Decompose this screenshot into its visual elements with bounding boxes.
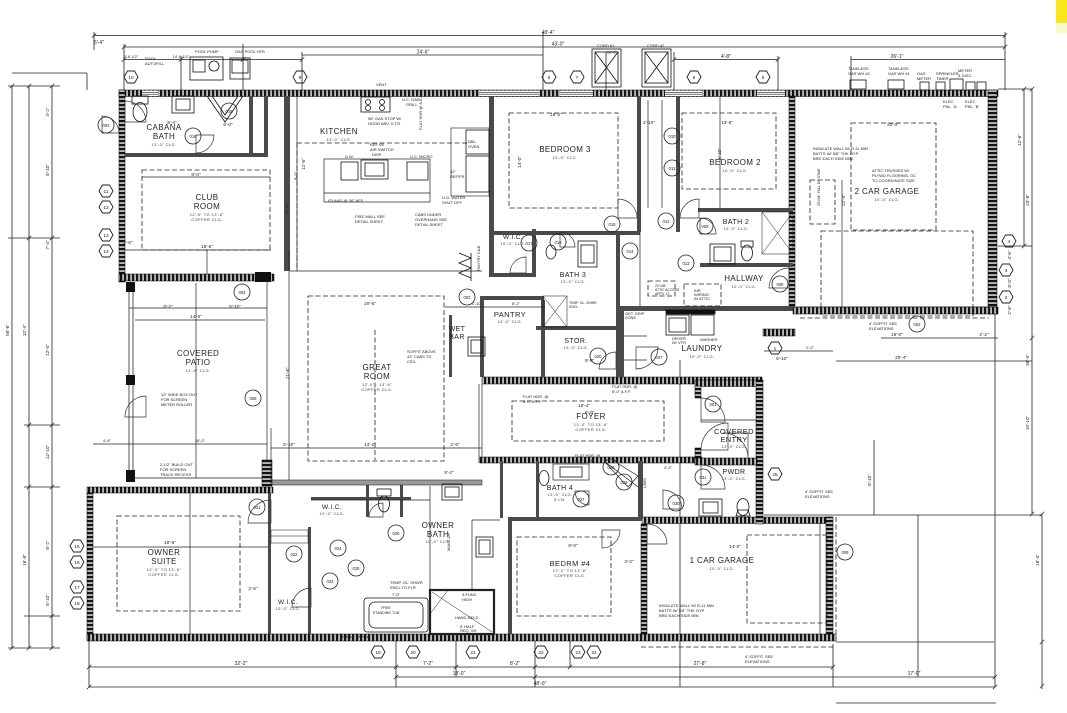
svg-text:STANDING TUB: STANDING TUB: [373, 611, 400, 615]
bath2 tub: [762, 212, 793, 254]
patio lower dim line: [93, 443, 267, 445]
svg-text:COND #1: COND #1: [597, 43, 615, 48]
svg-text:32'-2": 32'-2": [235, 661, 248, 667]
kitchen counter west edge: [296, 96, 298, 271]
patio columns: [126, 282, 135, 292]
svg-text:8'-2": 8'-2": [45, 540, 50, 550]
svg-text:028: 028: [608, 465, 616, 470]
svg-text:D.W.: D.W.: [345, 154, 354, 159]
svg-text:8: 8: [693, 75, 696, 81]
svg-text:10'-0" CLG.: 10'-0" CLG.: [552, 155, 577, 160]
svg-text:COFFER CLG.: COFFER CLG.: [575, 427, 606, 432]
svg-text:14'-0": 14'-0": [190, 314, 202, 319]
svg-text:REQ. SH: REQ. SH: [460, 628, 477, 633]
door covered entry side: [701, 398, 725, 422]
owner tub: [364, 598, 428, 632]
owner suite dim line: [93, 546, 268, 548]
dashed kitchen counter line: [297, 142, 470, 144]
svg-text:18'-0": 18'-0": [453, 671, 466, 677]
svg-text:011: 011: [669, 166, 676, 171]
svg-text:11: 11: [104, 189, 109, 195]
kitchen island outline: [324, 159, 430, 202]
svg-text:PWDR: PWDR: [723, 469, 746, 476]
dashed soffit line below garage wall: [800, 317, 989, 319]
door stor: [599, 352, 616, 369]
dimension texts bottom: [235, 661, 921, 687]
svg-text:W.I.C.: W.I.C.: [278, 599, 298, 606]
door swing arcs: [102, 101, 789, 607]
svg-text:ELEVATIONS: ELEVATIONS: [869, 326, 894, 331]
bath2 vanity: [710, 244, 735, 264]
svg-text:BRD EACH SIDE MIN.: BRD EACH SIDE MIN.: [659, 613, 700, 618]
svg-text:PANTRY: PANTRY: [494, 310, 526, 319]
svg-text:COVERED: COVERED: [177, 349, 219, 358]
right side connectors: [764, 514, 1042, 516]
svg-text:14'-0": 14'-0": [517, 156, 522, 168]
svg-text:ISLAND @ 36" AFF.: ISLAND @ 36" AFF.: [328, 198, 364, 203]
linen diagonal closet: [604, 461, 638, 487]
svg-text:KITCHEN: KITCHEN: [320, 127, 358, 136]
svg-text:12'-10": 12'-10": [45, 445, 50, 460]
svg-text:001: 001: [710, 402, 718, 407]
door entry second leaf: [701, 423, 728, 450]
door wic: [510, 257, 526, 273]
svg-text:10'-0" CLG.: 10'-0" CLG.: [319, 511, 344, 516]
svg-text:8'-10": 8'-10": [45, 594, 50, 606]
svg-text:8'-0": 8'-0": [568, 543, 578, 548]
svg-text:12'-6": 12'-6": [1017, 134, 1022, 146]
svg-text:TRACK RECESS: TRACK RECESS: [160, 472, 191, 477]
svg-text:COND #2: COND #2: [647, 43, 665, 48]
svg-text:24'-6": 24'-6": [417, 50, 430, 56]
covered entry north wall: [695, 380, 757, 387]
pantry dim line: [445, 306, 545, 308]
svg-text:BEDROOM 3: BEDROOM 3: [539, 145, 591, 154]
svg-text:2'-6": 2'-6": [248, 586, 258, 591]
wall: laundry west / stor east: [620, 311, 624, 377]
powder east wall: [756, 465, 763, 524]
door powder: [663, 490, 682, 509]
svg-text:20'-0": 20'-0": [887, 122, 899, 127]
foyer west opening line: [478, 384, 480, 463]
door powder north: [701, 465, 725, 489]
top dimension line third: [124, 59, 302, 61]
wall: bedroom3 south: [494, 231, 640, 235]
svg-text:25"x54" PULL DN STAIR: 25"x54" PULL DN STAIR: [817, 168, 821, 206]
wall: bedroom2 south / bath2 north: [698, 208, 793, 212]
svg-text:COFFER CLG.: COFFER CLG.: [148, 572, 179, 577]
wall: bath2 south / hallway north: [700, 263, 793, 267]
svg-text:8'-10": 8'-10": [776, 356, 788, 361]
svg-text:10'-0" CLG.: 10'-0" CLG.: [722, 168, 747, 173]
wall: bath3 east: [616, 232, 620, 377]
dashed ceiling rect: bedroom 2: [682, 113, 776, 189]
svg-text:DETAIL SHEET: DETAIL SHEET: [355, 219, 384, 224]
door bedroom2: [680, 199, 699, 218]
svg-text:BATH 4: BATH 4: [547, 485, 573, 492]
wall: foyer north / laundry south: [482, 377, 762, 384]
laundry interior lines: [624, 335, 647, 337]
interior thick walls: [125, 96, 793, 634]
dashed door: 1 car garage: [747, 535, 827, 623]
kitchen cooktop: [361, 97, 390, 112]
svg-text:18: 18: [74, 601, 80, 607]
svg-text:18'-0": 18'-0": [195, 438, 206, 443]
svg-text:BEDRM #4: BEDRM #4: [550, 559, 591, 568]
owner wic shelves: [271, 530, 308, 543]
svg-text:36'-0": 36'-0": [1025, 354, 1030, 366]
exterior wall: left upper (club room wing): [119, 90, 125, 282]
wall: owner toilet room: [366, 484, 369, 517]
svg-text:CEIL.: CEIL.: [407, 359, 417, 364]
svg-text:LINEAR DRAIN: LINEAR DRAIN: [340, 634, 368, 639]
exterior wall: 1 car garage west: [641, 524, 647, 634]
svg-text:17'-0": 17'-0": [908, 671, 921, 677]
svg-text:16: 16: [74, 560, 80, 566]
washer: [666, 315, 689, 335]
svg-text:22: 22: [538, 650, 544, 656]
island micro: [407, 162, 428, 180]
svg-text:2'-6 1/2": 2'-6 1/2": [124, 54, 139, 59]
left dimension vertical lines: [11, 86, 13, 648]
svg-text:8'-10": 8'-10": [867, 474, 872, 486]
svg-text:029: 029: [621, 480, 629, 485]
svg-text:SUITE: SUITE: [151, 557, 177, 566]
refrigerator: [466, 156, 489, 192]
bath4 toilet: [539, 471, 549, 486]
top extension lines: [93, 32, 95, 50]
svg-text:PANTRY CAB: PANTRY CAB: [476, 246, 481, 271]
svg-text:OWNER: OWNER: [148, 548, 181, 557]
svg-text:15: 15: [74, 544, 80, 550]
svg-text:2'-10": 2'-10": [643, 120, 655, 125]
owner makeup sink: [476, 537, 493, 557]
top-left connector: [12, 72, 87, 74]
hexagon keynote markers: [70, 71, 1016, 658]
svg-text:POOL PUMP: POOL PUMP: [195, 49, 219, 54]
hallway dim extension: [639, 232, 641, 306]
svg-text:PNL. 'A': PNL. 'A': [943, 104, 957, 109]
svg-text:48'-0": 48'-0": [534, 681, 547, 687]
svg-text:8'-0": 8'-0": [191, 172, 201, 177]
covered entry south wall segments: [695, 458, 757, 465]
svg-text:13'-6": 13'-6": [721, 120, 733, 125]
svg-text:10: 10: [128, 75, 134, 81]
svg-text:9: 9: [299, 75, 302, 81]
wall: wic east: [532, 229, 536, 277]
svg-text:12: 12: [103, 205, 109, 211]
svg-text:ELEVATIONS: ELEVATIONS: [805, 494, 830, 499]
svg-text:10'-0" CLG.: 10'-0" CLG.: [275, 606, 300, 611]
svg-text:008: 008: [777, 282, 785, 287]
door bedroom4: [602, 530, 620, 548]
svg-text:2: 2: [1005, 295, 1008, 301]
svg-text:14'-2": 14'-2": [364, 442, 376, 447]
dashed ceiling rect: bedroom 4: [517, 537, 611, 616]
exterior wall: 1 car garage north: [642, 517, 832, 524]
svg-text:18'-6": 18'-6": [201, 244, 213, 249]
svg-text:HOOD ABV. V.T.R.: HOOD ABV. V.T.R.: [368, 121, 401, 126]
door cabana: [196, 135, 214, 153]
svg-text:019: 019: [190, 134, 198, 139]
exterior wall: right (2 car garage east): [988, 90, 997, 314]
svg-text:25: 25: [772, 472, 778, 478]
svg-text:002: 002: [914, 322, 922, 327]
svg-text:1 CAR GARAGE: 1 CAR GARAGE: [690, 556, 755, 565]
svg-text:8'-0" A.F.F.: 8'-0" A.F.F.: [523, 399, 542, 404]
svg-text:ENTRY: ENTRY: [720, 435, 747, 444]
svg-text:COFFER CLG.: COFFER CLG.: [191, 217, 222, 222]
club room interior dim: [125, 249, 271, 251]
svg-text:CLUB: CLUB: [196, 193, 219, 202]
bath2 toilet: [742, 245, 753, 261]
svg-text:16'-0": 16'-0": [891, 332, 903, 337]
svg-text:7'-2": 7'-2": [423, 661, 433, 667]
keynote circles: [98, 103, 925, 589]
svg-text:19'-10": 19'-10": [1025, 416, 1030, 431]
svg-text:TIMER: TIMER: [936, 76, 949, 81]
svg-text:ROOM: ROOM: [364, 372, 391, 381]
dashed ceiling rect: great room: [308, 296, 444, 461]
svg-text:16'-4": 16'-4": [1035, 554, 1040, 566]
door hall-garage: [647, 524, 667, 544]
wall: pool vestibule east: [264, 96, 268, 157]
wall: kitchen east / bedroom3 west: [489, 96, 494, 277]
svg-text:3: 3: [1005, 268, 1008, 274]
top dimension line 43-0: [124, 46, 1005, 48]
patio screen wall west: [129, 282, 271, 478]
wall: bedroom3 east hall: [637, 96, 641, 232]
svg-text:TO COORDINATE SIZE: TO COORDINATE SIZE: [872, 178, 915, 183]
svg-text:ZONE: ZONE: [625, 315, 636, 320]
svg-text:020: 020: [595, 354, 603, 359]
svg-text:STOR.: STOR.: [564, 338, 587, 345]
svg-text:GREAT: GREAT: [363, 363, 392, 372]
svg-text:HALLWAY: HALLWAY: [724, 274, 764, 283]
wall: bath4 east / linen: [638, 461, 643, 519]
svg-text:14'-0": 14'-0": [729, 544, 741, 549]
svg-text:20'-4": 20'-4": [895, 355, 907, 360]
exterior wall: south main: [87, 634, 836, 641]
svg-text:10'-0" CLG.: 10'-0" CLG.: [709, 566, 734, 571]
svg-text:006: 006: [842, 550, 850, 555]
room labels: [146, 123, 919, 611]
double oven: [466, 130, 489, 154]
svg-text:GAS POOL HTR: GAS POOL HTR: [235, 49, 265, 54]
svg-text:GAS WH #1: GAS WH #1: [888, 71, 911, 76]
svg-text:004: 004: [239, 290, 247, 295]
svg-text:MAKE-UP: MAKE-UP: [446, 532, 451, 551]
svg-text:7'-4": 7'-4": [45, 240, 50, 250]
svg-text:009: 009: [702, 224, 710, 229]
club room dim line: [142, 176, 270, 178]
svg-text:016: 016: [555, 240, 563, 245]
svg-text:19: 19: [375, 650, 381, 656]
owner toilet: [379, 496, 390, 512]
wall: pantry north: [480, 296, 544, 300]
svg-text:& DISC.: & DISC.: [958, 73, 972, 78]
svg-text:4'-8": 4'-8": [721, 54, 731, 60]
condenser unit 1: [592, 49, 621, 87]
svg-text:10'-0" CLG.: 10'-0" CLG.: [723, 226, 748, 231]
dryer: [691, 315, 714, 335]
svg-text:031: 031: [700, 475, 708, 480]
svg-text:16'-4": 16'-4": [578, 403, 590, 408]
dashed ceiling rect: owner suite: [117, 516, 240, 611]
door hallway-garage: [769, 268, 789, 288]
svg-text:REF/FR: REF/FR: [450, 174, 465, 179]
wall: bedroom2 west hall: [676, 96, 680, 232]
svg-text:018: 018: [226, 109, 234, 114]
covered patio east line: [266, 282, 268, 460]
svg-text:4'-6": 4'-6": [103, 438, 112, 443]
dashed soffit rect: 2 car garage apron: [821, 231, 973, 316]
svg-text:8'-2": 8'-2": [510, 661, 520, 667]
svg-text:9'-0": 9'-0": [585, 358, 595, 363]
svg-text:ENCL TO FLR.: ENCL TO FLR.: [390, 585, 417, 590]
condenser unit 2: [642, 49, 671, 87]
gas pool heater unit: [230, 58, 250, 79]
svg-text:8'-4": 8'-4": [167, 120, 177, 125]
laundry counter band: [666, 310, 715, 314]
svg-text:12'-0": 12'-0": [45, 344, 50, 356]
svg-text:21'-6": 21'-6": [285, 367, 290, 379]
svg-text:14'-6 1/2": 14'-6 1/2": [173, 54, 190, 59]
svg-text:7'-0": 7'-0": [392, 592, 401, 597]
owner shower: [430, 590, 494, 634]
svg-text:2'-6": 2'-6": [450, 442, 460, 447]
svg-text:APPX. LT.: APPX. LT.: [655, 292, 670, 296]
svg-text:003: 003: [103, 123, 111, 128]
interior dimension texts: [103, 112, 899, 597]
wet bar sink: [468, 337, 485, 356]
svg-text:9'-10": 9'-10": [229, 304, 241, 309]
svg-text:022: 022: [291, 552, 299, 557]
svg-text:8'-0": 8'-0": [585, 410, 595, 415]
sliding glass door band: great room to patio: [271, 480, 482, 485]
exterior wall: 1 car garage east: [826, 517, 833, 634]
svg-text:GAS WH #2: GAS WH #2: [848, 71, 871, 76]
door owner toilet: [369, 503, 383, 517]
bath4 sink inner: [560, 467, 582, 477]
svg-text:LINEN: LINEN: [643, 477, 647, 488]
dashed ceiling rect: 2 car garage: [851, 123, 936, 230]
patio dim lines: [135, 319, 265, 321]
svg-text:10'-0" CLG.: 10'-0" CLG.: [500, 241, 525, 246]
svg-text:20'-6": 20'-6": [364, 301, 376, 306]
svg-text:2'-2": 2'-2": [979, 332, 989, 337]
wall: foyer south / powder north: [480, 457, 702, 463]
small annotations: [145, 43, 979, 664]
svg-text:8'-2": 8'-2": [512, 301, 521, 306]
svg-text:015: 015: [609, 222, 617, 227]
club room center line: [206, 250, 208, 274]
svg-text:014: 014: [627, 249, 635, 254]
dimension texts left rotated: [5, 107, 50, 606]
pool pump unit: [190, 57, 223, 80]
svg-text:21: 21: [470, 650, 476, 656]
cabana toilet: [133, 103, 147, 122]
wall: kitchen west / great room: [284, 96, 290, 271]
svg-text:005: 005: [250, 396, 258, 401]
door laundry: [636, 347, 658, 369]
svg-text:024: 024: [335, 546, 343, 551]
bath3 shower x: [543, 296, 567, 327]
dashed ceiling rect: foyer: [512, 401, 664, 441]
svg-text:COFFER CLG.: COFFER CLG.: [361, 387, 392, 392]
kitchen west dim extension line: [288, 250, 290, 480]
top dimension line 48-4: [94, 35, 1005, 37]
covered entry east wall: [756, 380, 763, 465]
svg-text:13'-0" CLG.: 13'-0" CLG.: [151, 142, 176, 147]
svg-text:10'-0" CLG.: 10'-0" CLG.: [874, 197, 899, 202]
exterior wall: 2 car garage south: [793, 307, 998, 314]
pantry cabinet zigzag: [459, 253, 471, 278]
svg-text:WASHER: WASHER: [700, 337, 718, 342]
svg-text:IN ATTIC: IN ATTIC: [694, 296, 710, 301]
laundry dim line: [764, 350, 833, 352]
entry interior: [701, 419, 756, 421]
svg-text:4'-2": 4'-2": [664, 465, 673, 470]
dimension texts top: [94, 30, 904, 60]
svg-text:PATIO: PATIO: [186, 358, 211, 367]
svg-text:023: 023: [327, 579, 335, 584]
svg-text:027: 027: [578, 497, 586, 502]
dashed great room line: [374, 330, 376, 460]
svg-text:METER: METER: [917, 76, 931, 81]
svg-text:1'-10": 1'-10": [472, 301, 483, 306]
dashed ceiling rect: bedroom 3: [509, 113, 618, 208]
svg-text:W/ VTR: W/ VTR: [672, 340, 686, 345]
svg-text:U.C. MICRO: U.C. MICRO: [410, 154, 432, 159]
kitchen east cab outline: [451, 128, 489, 196]
svg-text:FLAT HDR @ 8-0 AFF: FLAT HDR @ 8-0 AFF: [418, 90, 423, 130]
svg-text:24: 24: [591, 650, 597, 656]
svg-text:PNL. 'B': PNL. 'B': [965, 104, 979, 109]
svg-text:LAUNDRY: LAUNDRY: [682, 344, 723, 353]
svg-text:12'-6": 12'-6": [301, 158, 306, 170]
svg-text:017: 017: [526, 241, 534, 246]
svg-text:ROOM: ROOM: [194, 202, 221, 211]
wall: cabana east: [249, 96, 253, 157]
powder sink: [699, 499, 722, 516]
svg-text:010: 010: [669, 134, 677, 139]
bath3 sink: [578, 241, 597, 267]
svg-text:10'-0" CLG.: 10'-0" CLG.: [689, 354, 714, 359]
wall: wet bar west: [449, 315, 452, 377]
corner highlight yellow: [1056, 0, 1067, 23]
wall: bedroom4 north: [508, 517, 642, 521]
great room / kitchen transition line: [290, 270, 482, 272]
owner vanity sink 1: [442, 484, 462, 500]
thin interior lines: [93, 96, 989, 634]
dashed rect: attic access: [648, 281, 675, 296]
svg-text:ELEVATIONS: ELEVATIONS: [745, 659, 770, 664]
exterior wall: owner wing north: [87, 487, 273, 493]
svg-text:DETAIL SHEET: DETAIL SHEET: [415, 222, 444, 227]
hallway closet shelf lines: [647, 100, 649, 208]
dimension texts right rotated: [867, 134, 1040, 566]
svg-text:43'-0": 43'-0": [552, 42, 565, 48]
cabana sink: [172, 96, 194, 113]
svg-text:48'-4": 48'-4": [542, 30, 555, 36]
wall: garage west / hallway east: [789, 96, 795, 307]
svg-text:3'-0": 3'-0": [624, 559, 634, 564]
svg-text:DISP: DISP: [372, 152, 382, 157]
svg-text:27'-8": 27'-8": [694, 661, 707, 667]
svg-text:HIGH: HIGH: [462, 597, 472, 602]
patio screen door: [125, 396, 146, 417]
